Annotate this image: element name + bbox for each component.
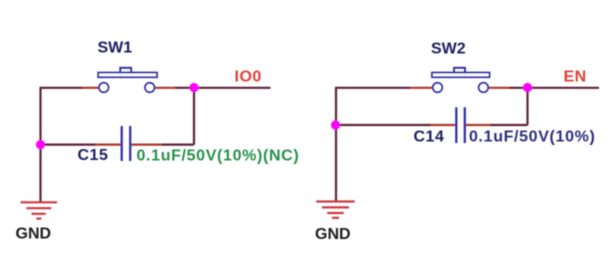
pin: C14 right pin (red) bbox=[466, 124, 491, 126]
junction: left rail / cap row bbox=[36, 140, 45, 149]
pin: SW2 left pin (red) bbox=[411, 87, 433, 89]
svg-text:SW2: SW2 bbox=[431, 41, 466, 58]
svg-text:C14: C14 bbox=[414, 129, 445, 146]
svg-text:GND: GND bbox=[315, 226, 351, 243]
wire: cap row right segment bbox=[491, 124, 528, 126]
wire: vertical from junction down to cap row bbox=[193, 88, 195, 145]
svg-text:GND: GND bbox=[16, 226, 52, 243]
switch SW1 body bbox=[98, 68, 157, 92]
wire: switch right to junction and net stub IO0 bbox=[175, 87, 271, 89]
svg-text:SW1: SW1 bbox=[98, 40, 133, 57]
junction: SW1 output node bbox=[189, 83, 198, 92]
ground symbol (left) bbox=[21, 202, 58, 218]
capacitor C15 plates bbox=[122, 126, 131, 161]
pin: C15 right pin (red) bbox=[131, 144, 162, 146]
svg-text:0.1uF/50V(10%)(NC): 0.1uF/50V(10%)(NC) bbox=[137, 148, 300, 165]
wire: left rail vertical (node to GND) bbox=[39, 88, 41, 202]
wire: cap row right segment bbox=[162, 144, 194, 146]
junction: right rail / cap row bbox=[331, 120, 340, 129]
pin: C15 left pin (red) bbox=[96, 144, 121, 146]
capacitor C14 plates bbox=[456, 107, 465, 143]
svg-text:EN: EN bbox=[564, 69, 587, 86]
junction: SW2 output node bbox=[523, 83, 532, 92]
svg-text:0.1uF/50V(10%): 0.1uF/50V(10%) bbox=[469, 129, 595, 146]
pin: SW1 left pin (red) bbox=[83, 87, 99, 89]
svg-text:IO0: IO0 bbox=[235, 69, 262, 86]
pin: SW1 right pin (red) bbox=[155, 87, 176, 89]
wire: cap row left segment bbox=[336, 124, 431, 126]
wire: top horizontal left segment bbox=[335, 87, 411, 89]
wire: top-left horizontal segment bbox=[40, 87, 84, 89]
wire: vertical from junction to cap row bbox=[526, 88, 528, 125]
pin: C14 left pin (red) bbox=[431, 124, 456, 126]
switch SW2 body bbox=[432, 68, 490, 92]
pin: SW2 right pin (red) bbox=[488, 87, 509, 89]
svg-text:C15: C15 bbox=[78, 147, 109, 164]
ground symbol (right) bbox=[316, 202, 355, 218]
wire: right-circuit rail vertical bbox=[335, 88, 337, 202]
wire: cap row left segment bbox=[41, 144, 96, 146]
wire: switch right to junction and net stub EN bbox=[509, 87, 599, 89]
